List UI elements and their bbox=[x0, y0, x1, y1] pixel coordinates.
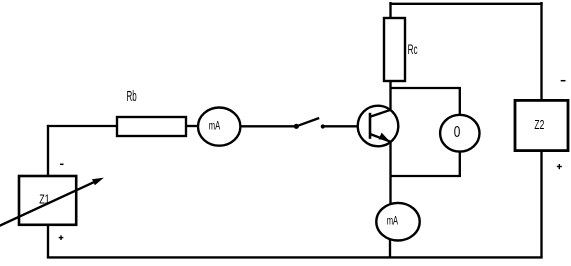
wire switch to transistor base bbox=[323, 125, 359, 127]
switch S (open) bbox=[294, 118, 325, 129]
resistor Rb bbox=[117, 117, 186, 136]
transistor Q1 (NPN) bbox=[358, 106, 399, 147]
svg-text:mA: mA bbox=[387, 214, 398, 228]
source Z1 (variable) bbox=[19, 176, 76, 225]
wire stub from oscilloscope bottom bbox=[459, 151, 461, 177]
wire Z2 bottom vertical bbox=[540, 151, 542, 259]
svg-text:0: 0 bbox=[454, 124, 461, 141]
svg-text:mA: mA bbox=[209, 118, 220, 132]
wire emitter vertical bbox=[389, 142, 391, 205]
resistor Rc bbox=[384, 18, 405, 81]
polarity + (Z1 bottom) bbox=[59, 235, 64, 240]
wire Rb to ammeter bbox=[186, 125, 199, 127]
wire bottom rail bbox=[47, 256, 543, 258]
source Z2 bbox=[515, 100, 568, 150]
wire ammeter to bottom rail bbox=[389, 240, 391, 257]
wire collector vertical bbox=[389, 82, 391, 110]
wire left vertical upper bbox=[47, 125, 49, 177]
svg-text:Rb: Rb bbox=[127, 88, 137, 105]
svg-text:Z2: Z2 bbox=[534, 117, 544, 132]
wire stub to oscilloscope top bbox=[459, 87, 461, 116]
ammeter mA (emitter circuit) bbox=[376, 203, 419, 241]
wire ammeter to switch bbox=[240, 125, 295, 127]
svg-text:Rc: Rc bbox=[408, 41, 418, 57]
wire emitter branch horizontal bbox=[390, 175, 461, 177]
wire right vertical to Z2 bbox=[540, 2, 542, 101]
polarity - (Z1 top) bbox=[60, 163, 64, 165]
wire left vertical lower bbox=[47, 225, 49, 258]
wire collector branch horizontal bbox=[390, 87, 461, 89]
polarity + (Z2 bottom) bbox=[557, 164, 562, 169]
oscilloscope O bbox=[440, 115, 479, 152]
arrow (variable Z1) bbox=[0, 178, 104, 227]
wire top rail bbox=[389, 3, 542, 5]
polarity - (Z2 top) bbox=[561, 80, 566, 82]
ammeter mA (base circuit) bbox=[198, 108, 240, 146]
wire Rc top vertical bbox=[389, 2, 391, 18]
wire left-top horizontal bbox=[47, 125, 118, 127]
